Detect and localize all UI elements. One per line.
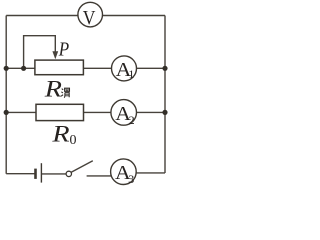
svg-text:R: R [51,121,69,146]
svg-text:2: 2 [129,113,135,127]
svg-text:R: R [44,76,62,101]
svg-text:1: 1 [128,67,134,81]
svg-text:P: P [58,39,69,61]
svg-text:3: 3 [128,172,134,186]
svg-text:0: 0 [70,133,77,148]
svg-text:V: V [83,8,96,29]
